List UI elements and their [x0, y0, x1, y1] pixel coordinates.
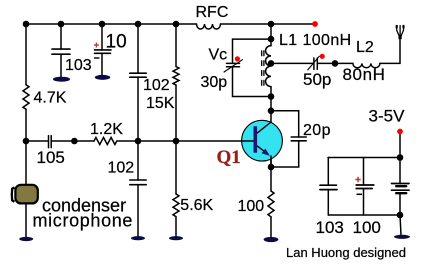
wire power cap103 bottom: [327, 190, 329, 215]
svg-text:RFC: RFC: [196, 4, 229, 21]
svg-text:100: 100: [353, 218, 381, 237]
svg-text:80nH: 80nH: [343, 65, 386, 84]
antenna prong tips: [396, 26, 398, 28]
wire power cap103 top: [327, 158, 329, 186]
wire left column middle: [25, 109, 27, 141]
transistor Q1 base bar: [254, 126, 258, 152]
transistor Q1 emitter line: [257, 146, 268, 155]
wire 15K to base row: [175, 85, 177, 194]
ground under battery: [394, 235, 410, 239]
transistor Q1 collector line: [257, 122, 271, 133]
node 50p-L2: [332, 60, 339, 67]
capacitor C 20p: [291, 137, 306, 141]
wire 50p to L2: [317, 62, 353, 64]
node L1 top: [268, 36, 275, 43]
wire cap103 column: [60, 24, 62, 49]
node Vc red dot: [235, 56, 240, 61]
wire tap to 50p: [271, 62, 314, 64]
svg-text:3-5V: 3-5V: [369, 107, 406, 126]
svg-text:1.2K: 1.2K: [90, 121, 123, 138]
node power bottom: [397, 212, 404, 219]
svg-text:105: 105: [37, 148, 65, 167]
wire microphone to ground: [25, 204, 27, 238]
wire mid column to ground: [137, 185, 139, 237]
wire cap10 column: [101, 24, 103, 50]
wire top rail left segment: [26, 23, 197, 25]
node Vdd terminal (rail): [312, 21, 318, 27]
svg-text:Vc: Vc: [209, 47, 228, 64]
capacitor C 103 (top-left): [52, 49, 70, 54]
inductor L1 coil: [266, 46, 271, 87]
wire base into transistor: [242, 140, 254, 142]
node L1 tap: [268, 60, 275, 67]
node 105-1.2K: [71, 138, 78, 145]
ground under microphone: [19, 237, 33, 241]
ground under 100: [264, 237, 279, 242]
svg-text:50p: 50p: [303, 70, 331, 89]
trimmer capacitor Vc plates: [227, 63, 240, 66]
capacitor C 102 (upper): [130, 73, 146, 77]
wire 100 to ground: [270, 217, 272, 238]
wire emitter inside circle: [270, 156, 272, 168]
wire top rail right segment: [221, 23, 316, 25]
svg-text:15K: 15K: [146, 95, 175, 112]
node 50p red dot: [320, 54, 325, 59]
wire L1 column top: [270, 24, 272, 46]
node emitter-20p: [268, 164, 275, 171]
svg-text:L2: L2: [356, 39, 374, 56]
polarity - of C10: [94, 57, 100, 59]
node 1.2K-102: [135, 138, 142, 145]
node rail-L1: [268, 21, 275, 28]
resistor R 5.6K: [173, 194, 179, 217]
wire power cap100 top: [363, 158, 365, 186]
capacitor C 100 (power electrolytic): [356, 185, 374, 189]
inductor L2 coil: [353, 63, 380, 67]
node base-15K: [173, 138, 180, 145]
svg-text:10: 10: [106, 32, 127, 53]
wire 105 to 1.2K: [51, 140, 94, 142]
node rail-15K: [173, 21, 180, 28]
antenna: [397, 26, 404, 38]
transistor Q1 body: [242, 120, 283, 161]
capacitor C 105 (series): [49, 136, 52, 148]
node collector-20p: [268, 108, 275, 115]
antenna base pad: [399, 36, 402, 39]
battery BT1 plates: [392, 183, 410, 185]
resistor R 1.2K: [94, 138, 117, 145]
ground under 5.6K: [169, 236, 183, 240]
wire 20p branch bottom: [271, 141, 299, 167]
capacitor C 10 electrolytic plates: [95, 50, 112, 53]
wire base row left: [26, 140, 48, 142]
wire Vc bottom branch: [233, 67, 272, 97]
wire power bottom rail: [328, 214, 400, 216]
resistor R 4.7K: [23, 85, 29, 110]
svg-text:100: 100: [238, 198, 265, 215]
microphone bracket: [12, 187, 15, 201]
wire Vc top branch: [233, 39, 272, 63]
ground under 10: [95, 75, 110, 80]
svg-text:Lan Huong designed: Lan Huong designed: [286, 245, 406, 260]
wire 20p branch top: [271, 111, 299, 137]
ground symbols (navy pads): [19, 75, 410, 242]
wire left column upper: [25, 24, 27, 85]
resistor R 15K: [173, 67, 179, 86]
svg-text:5.6K: 5.6K: [180, 197, 213, 214]
trimmer capacitor Vc slash: [224, 60, 243, 72]
microphone body MIC: [15, 185, 37, 204]
node rail-10: [99, 21, 106, 28]
node rail-103: [58, 21, 65, 28]
inductor RFC: [197, 24, 221, 29]
wire battery to ground: [400, 215, 401, 235]
wire mid column middle: [137, 77, 139, 180]
svg-text:103: 103: [65, 57, 92, 74]
inductor L1 core dashes: [262, 51, 264, 85]
svg-text:microphone: microphone: [33, 211, 134, 231]
wire L2 to antenna: [380, 39, 400, 64]
wire left column to microphone: [25, 141, 27, 185]
polarity - of C100: [357, 193, 363, 195]
wire L1 to collector: [270, 87, 272, 123]
ground under 102: [131, 236, 145, 240]
capacitor C 50p plates: [314, 58, 317, 69]
wire power cap100 bottom: [363, 189, 365, 216]
wire emitter down: [270, 157, 272, 192]
wire base row right to transistor: [117, 140, 243, 142]
svg-text:30p: 30p: [201, 74, 228, 91]
capacitor C 102 (lower): [130, 180, 146, 185]
capacitor C 50p slash: [308, 56, 319, 70]
capacitor C 103 (power): [320, 185, 337, 189]
wire 15K column top: [175, 24, 177, 67]
node power top: [397, 154, 404, 161]
wire 3-5V terminal down: [399, 132, 401, 158]
svg-text:4.7K: 4.7K: [34, 90, 67, 107]
wire power top rail: [328, 157, 400, 159]
polarity + of C100: [355, 177, 360, 182]
wire 5.6K to ground: [175, 217, 177, 237]
node 3-5V terminal: [397, 129, 403, 135]
transistor Q1 emitter arrow: [262, 149, 270, 156]
red terminal dots: [235, 21, 403, 134]
svg-text:103: 103: [316, 218, 344, 237]
svg-text:L1 100nH: L1 100nH: [279, 32, 352, 49]
svg-text:Q1: Q1: [217, 147, 241, 168]
polarity + of C10: [94, 43, 99, 48]
battery BT1 top lead: [399, 158, 401, 184]
node rail-left: [23, 21, 30, 28]
svg-text:102: 102: [143, 77, 170, 94]
svg-text:20p: 20p: [303, 122, 331, 139]
node L1 bottom: [268, 93, 275, 100]
node rail-102: [135, 21, 142, 28]
resistor R 100 (emitter): [268, 191, 274, 217]
node base-left: [23, 138, 30, 145]
svg-text:102: 102: [108, 160, 135, 177]
ground under 103: [53, 77, 70, 82]
battery BT1 bottom lead: [399, 193, 401, 215]
wire mid column upper: [137, 24, 139, 73]
